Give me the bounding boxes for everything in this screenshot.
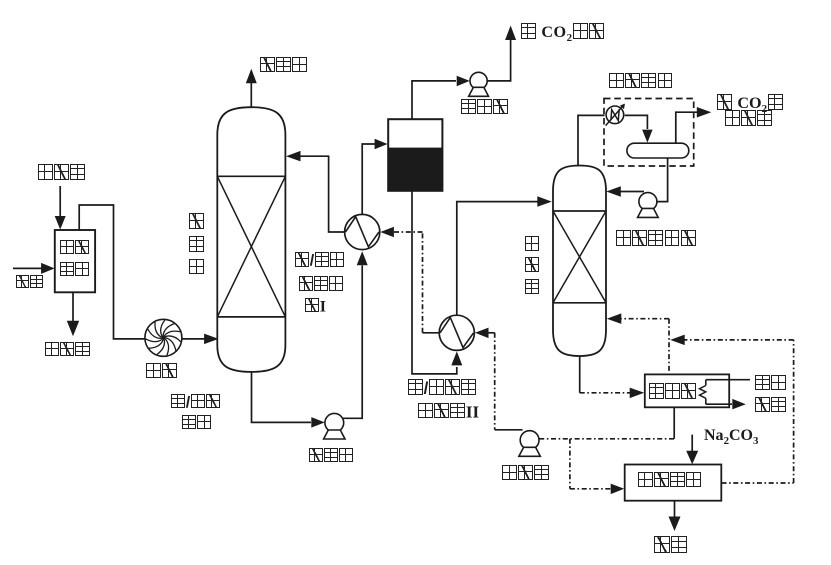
reboiler box (645, 374, 729, 407)
drum vapor pipe to CO2 compression (676, 112, 698, 143)
cooling water feed arrow (59, 186, 61, 217)
water outlet arrow (72, 292, 74, 321)
label reboiler 再沸器 (648, 383, 696, 400)
label condensate reflux pump 冷凝回流泵 (616, 230, 697, 247)
direct cooling unit box (55, 230, 95, 292)
regen overhead vapor pipe (578, 115, 605, 165)
fan to absorber arrow (182, 338, 207, 340)
label heating steam 加热蒸汽 (755, 375, 787, 392)
label lean/rich heat exchanger I 贫/富液热交换器I (295, 252, 345, 270)
label water circulation 水循环 (45, 342, 91, 360)
flash tank shell (388, 119, 442, 191)
HX I top pipe to flash tank (362, 144, 375, 214)
label condenser system 冷凝系统 (609, 73, 674, 90)
label Na2CO3 (704, 428, 758, 447)
heat exchanger II (439, 315, 474, 350)
label air/air heat exchanger 空/空换热器 (171, 394, 221, 412)
purified gas arrow (250, 83, 252, 107)
tank bottoms pipe to HX II (412, 191, 457, 374)
label direct cooling unit 直冷装置 (60, 240, 90, 258)
rich pump discharge pipe (343, 266, 362, 419)
label fan 风机 (146, 363, 178, 380)
rich solution pump (325, 413, 344, 432)
lean suction pipe from reboiler (dash-dot) (539, 438, 674, 440)
purge branch to recovery unit (569, 439, 571, 489)
condenser (606, 106, 624, 124)
label regenerator 再生塔 (vertical) (525, 236, 539, 294)
label rich CO2 gas 富CO2气体 (520, 23, 605, 45)
reflux drum (627, 143, 689, 158)
HX II left outlet pipe (to HX I) (423, 332, 440, 334)
recovered solution return pipe (722, 482, 794, 484)
reflux return arrow into regenerator (620, 191, 644, 193)
label slurry 浆料 (654, 536, 688, 554)
flue gas inlet arrow (13, 267, 42, 269)
heating element (steam coil) (705, 380, 707, 386)
cooled gas loop pipe (79, 205, 145, 339)
vacuum pump (470, 72, 487, 89)
label to CO2 compression dehydration 至CO2压缩脱水 (717, 94, 784, 116)
slurry outlet arrow (674, 501, 676, 518)
label vacuum pump 真空泵 (461, 99, 509, 116)
recovery unit box (625, 465, 722, 501)
absorber packing section (217, 175, 285, 177)
Na2CO3 feed arrow (691, 435, 693, 453)
drum bottoms pipe to reflux pump (657, 158, 667, 202)
label flue gas 烟气 (15, 275, 43, 291)
condensate reflux pump (639, 193, 657, 211)
lean solution pump (520, 431, 539, 450)
fan (blower) (145, 319, 182, 356)
tank overhead vapor pipe (412, 81, 456, 119)
HX II top pipe to regenerator (457, 202, 539, 316)
lean inlet arrow into HX II (475, 328, 489, 339)
label purified gas 净化气 (260, 57, 308, 74)
label rich pump 富液泵 (308, 448, 354, 466)
label absorber tower 吸收塔 (vertical) (189, 213, 204, 274)
hot lean inlet arrow into HX I (380, 227, 394, 237)
vacuum pump discharge pipe (487, 40, 510, 81)
flash tank liquid holdup (black) (388, 148, 442, 191)
heat exchanger I (345, 214, 380, 249)
regen bottoms pipe to reboiler (579, 356, 581, 393)
label recovery unit 回收装置 (637, 472, 702, 489)
reboiler vapor return pipe (621, 318, 670, 320)
condenser system dashed boundary (604, 99, 694, 167)
lean solution inlet pipe to absorber top (300, 156, 345, 232)
label lean/rich heat exchanger II 贫/富液热交换器II (408, 379, 477, 396)
label lean pump 贫液泵 (502, 465, 550, 482)
absorber bottoms pipe (252, 372, 312, 423)
label cooling water 冷却水 (37, 164, 85, 181)
condenser outlet to reflux drum (625, 115, 648, 129)
regenerator column shell (553, 166, 606, 357)
absorber column shell (217, 107, 285, 372)
regenerator packing section (553, 210, 606, 212)
